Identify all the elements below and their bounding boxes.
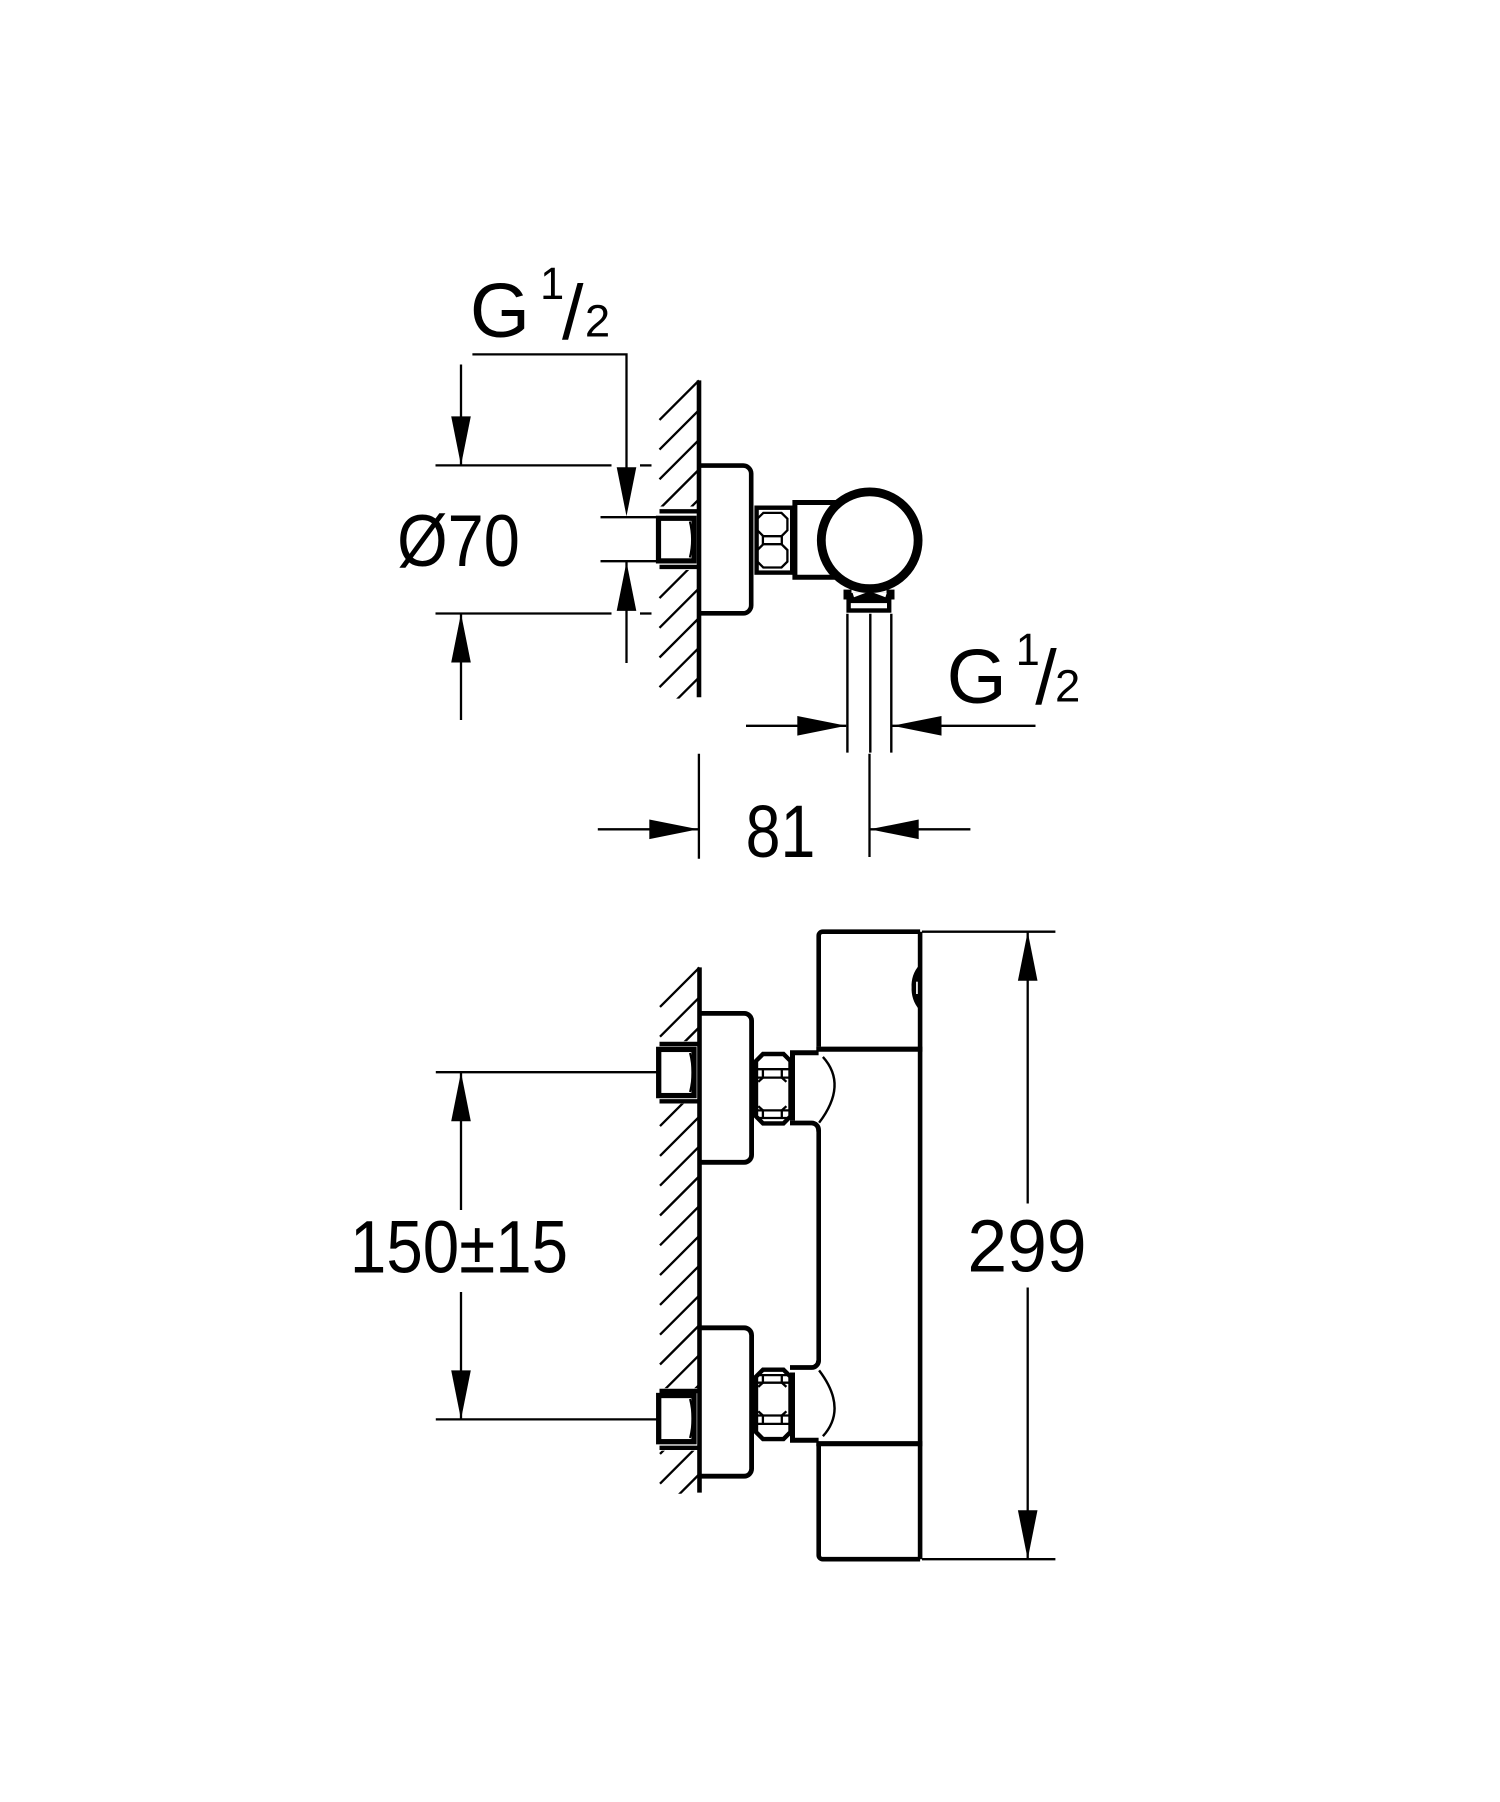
dim299 extension top [922, 931, 1055, 933]
G1/2 outlet dim line right [893, 725, 1036, 727]
dim150 arrow up [451, 1072, 471, 1121]
dim299 extension bottom [922, 1558, 1055, 1560]
dim81 wall extension [698, 754, 700, 859]
dim299 line upper [1027, 932, 1029, 1204]
dia70 extension bottom [436, 612, 612, 614]
set screw detail (view 2) [912, 965, 920, 1011]
dia70 extension top [436, 464, 612, 466]
square connection nut (view 1) [659, 518, 695, 561]
dim150 extension bottom [436, 1418, 658, 1420]
escutcheon rosette (view 1) [699, 466, 751, 614]
dia70 arrow down tail [460, 365, 462, 466]
dia70 arrow down [451, 416, 471, 465]
dim81 line left [598, 828, 699, 830]
dim150 line lower [460, 1292, 462, 1419]
svg-text:G: G [947, 634, 1007, 720]
svg-text:81: 81 [746, 790, 816, 873]
mixer bar body (view 2) [819, 932, 920, 1047]
dim299 arrow down [1018, 1510, 1038, 1559]
svg-text:1: 1 [540, 259, 564, 309]
G1/2 outlet dim line left [746, 725, 846, 727]
dim81 arrow left [870, 820, 919, 840]
wall hatching (view 2) [660, 967, 700, 1543]
outlet collar (view 1) [844, 593, 895, 600]
hatch gap at inlet fitting (view 1) [655, 507, 698, 571]
upper housing intersection arc (view 2) [819, 1057, 834, 1123]
upper hex union nut (view 2) [756, 1054, 791, 1123]
lower escutcheon (view 2) [700, 1328, 752, 1476]
dim150 extension top [436, 1071, 658, 1073]
dim81 line right [870, 828, 971, 830]
dim150 line upper [460, 1072, 462, 1210]
wall face line (view 1) [697, 380, 702, 697]
dim81 center extension [868, 754, 870, 857]
svg-text:G: G [470, 268, 530, 354]
lower square nut (view 2) [659, 1396, 694, 1442]
svg-text:Ø70: Ø70 [397, 499, 520, 582]
dim299 line lower [1027, 1288, 1029, 1560]
svg-text:299: 299 [967, 1205, 1086, 1288]
hex union nut (view 1) [757, 508, 793, 573]
dim81 arrow right [649, 820, 698, 840]
svg-text:150±15: 150±15 [350, 1206, 568, 1289]
wall flange lines (view 1) [660, 509, 698, 513]
upper joint line (view 2) [816, 1047, 922, 1052]
G1/2 top arrow up [617, 562, 637, 611]
supply pipe stub lines (view 1) [601, 516, 659, 518]
svg-text:2: 2 [1055, 660, 1080, 711]
dim150 arrow down [451, 1370, 471, 1419]
dia70 arrow up [451, 614, 471, 663]
dim299 arrow up [1018, 932, 1038, 981]
svg-text:/: / [1035, 635, 1057, 721]
lower housing intersection arc (view 2) [819, 1370, 834, 1436]
outlet pipe (view 1) [846, 614, 848, 753]
lower hex union nut (view 2) [756, 1370, 791, 1439]
upper escutcheon (view 2) [700, 1013, 752, 1162]
G1/2 top arrow up tail [625, 562, 627, 663]
dia70 arrow up tail [460, 614, 462, 721]
G1/2 outlet arrow right [797, 716, 846, 736]
wall face line (view 2) [697, 967, 702, 1492]
upper inlet housing (view 2) [790, 1055, 795, 1121]
G1/2 top arrow down [617, 467, 637, 516]
upper wall flange lines (view 2) [660, 1042, 699, 1046]
svg-text:2: 2 [585, 296, 610, 347]
hatch gap upper fitting (view 2) [655, 1041, 699, 1104]
lower wall flange lines (view 2) [660, 1389, 699, 1393]
hatch gap lower fitting (view 2) [655, 1388, 699, 1451]
wall hatching (view 1) [660, 380, 700, 776]
lower joint line (view 2) [816, 1441, 922, 1446]
G1/2 top leader line [472, 354, 626, 468]
svg-text:/: / [562, 270, 584, 356]
G1/2 outlet arrow left [893, 716, 942, 736]
thermostat knob circle (view 1) [821, 492, 918, 589]
valve body (view 1) [795, 503, 845, 578]
lower inlet housing (view 2) [790, 1373, 795, 1439]
upper square nut (view 2) [659, 1049, 694, 1095]
